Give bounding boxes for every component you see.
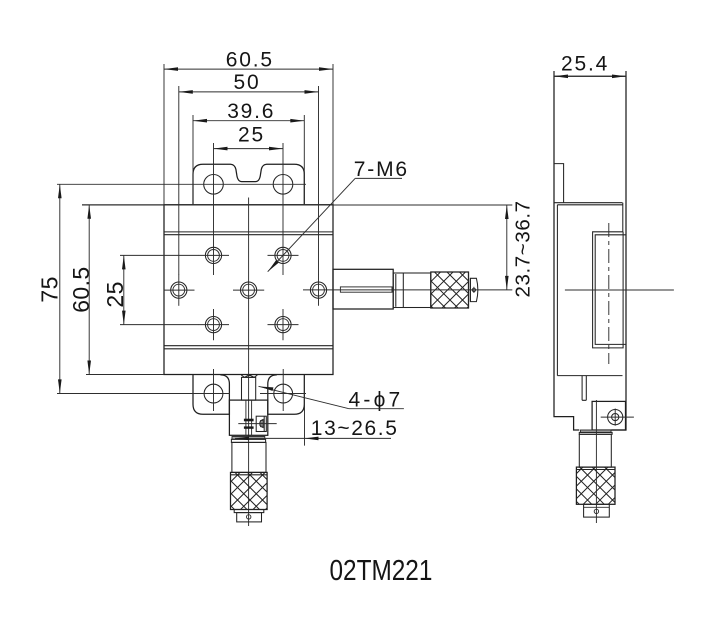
screw shaft bbox=[245, 400, 247, 435]
dim 25.4 side view bbox=[554, 53, 626, 78]
dim 39.6 top bbox=[193, 100, 304, 205]
X micrometer spindle slot bbox=[340, 287, 392, 292]
M6 hole top-right bbox=[268, 247, 299, 263]
bottom tab hole right bbox=[274, 369, 293, 411]
side view body left edge bbox=[556, 205, 558, 376]
dim 25 top bbox=[214, 124, 284, 276]
svg-text:13~26.5: 13~26.5 bbox=[311, 417, 399, 440]
shaft band lower bbox=[244, 426, 254, 428]
shaft band upper bbox=[244, 419, 254, 422]
M6 hole mid-left bbox=[164, 275, 195, 306]
clamp screw centerline bbox=[238, 423, 276, 425]
Y micrometer knurled thimble bbox=[231, 472, 268, 509]
side micrometer knurled thimble bbox=[576, 467, 615, 504]
dim 50 top bbox=[179, 71, 319, 275]
dim 60.5 left bbox=[68, 205, 164, 375]
screw tip bbox=[241, 375, 257, 378]
Y micrometer end cap bbox=[237, 513, 262, 522]
M6 hole top-left bbox=[198, 247, 229, 263]
bottom tab right ear bbox=[268, 375, 305, 415]
X micrometer end cap bbox=[470, 278, 477, 301]
side view clamp bracket bbox=[592, 401, 625, 430]
body upper seam lines bbox=[164, 231, 333, 233]
svg-text:25: 25 bbox=[102, 281, 128, 307]
svg-text:23.7~36.7: 23.7~36.7 bbox=[512, 200, 535, 297]
dim 75 left bbox=[37, 184, 63, 393]
X micrometer knurled thimble bbox=[431, 272, 469, 308]
svg-text:75: 75 bbox=[37, 276, 63, 302]
X micrometer ratchet band bbox=[468, 272, 470, 308]
svg-text:39.6: 39.6 bbox=[227, 100, 275, 123]
top mounting tab outline bbox=[193, 164, 304, 205]
body lower seam lines bbox=[164, 345, 333, 347]
side view clamp screw bbox=[601, 409, 634, 426]
side view outer profile bbox=[554, 71, 626, 430]
side view bottom tab edge-on bbox=[582, 376, 586, 401]
Y micrometer sleeve bbox=[232, 442, 266, 472]
side view dashed centerline bbox=[608, 223, 610, 364]
side micrometer sleeve bbox=[579, 434, 611, 467]
top tab hole left bbox=[204, 175, 224, 195]
X micrometer axis centerline bbox=[303, 289, 512, 291]
dim 60.5 top bbox=[164, 48, 333, 204]
side view platform seam bbox=[554, 202, 623, 204]
svg-text:02TM221: 02TM221 bbox=[330, 554, 433, 586]
side view horizontal centerline bbox=[565, 289, 674, 291]
svg-text:60.5: 60.5 bbox=[226, 48, 274, 71]
side view body bottom bbox=[557, 375, 622, 377]
clamp screw knurled head bbox=[259, 419, 263, 427]
Y micrometer collar bbox=[232, 437, 265, 440]
side view body top bbox=[557, 204, 622, 206]
X micrometer mount block bbox=[333, 269, 393, 309]
svg-text:4-ϕ7: 4-ϕ7 bbox=[349, 388, 404, 411]
side micrometer end cap bbox=[584, 504, 610, 517]
side micrometer centerline bbox=[595, 400, 597, 523]
clamp screw housing bbox=[256, 416, 266, 431]
X micrometer barrel bbox=[393, 273, 431, 308]
Y-axis micrometer mount block bbox=[229, 400, 267, 435]
bottom tab centerline bbox=[57, 393, 230, 395]
Y-axis screw column bbox=[242, 377, 256, 400]
top tab hole right bbox=[273, 175, 293, 195]
svg-text:7-M6: 7-M6 bbox=[354, 158, 409, 181]
M6 hole bottom-right bbox=[268, 309, 299, 340]
M6 hole center bbox=[233, 282, 264, 298]
bottom tab left ear bbox=[193, 375, 229, 415]
svg-text:50: 50 bbox=[234, 71, 261, 94]
bottom tab hole left bbox=[204, 369, 223, 411]
side view left step notch bbox=[554, 164, 564, 203]
svg-text:60.5: 60.5 bbox=[68, 266, 94, 312]
dim 25 left bbox=[102, 255, 198, 324]
side micrometer collar bbox=[581, 430, 612, 432]
vertical centerline of front view bbox=[248, 198, 250, 527]
side view slide seam inner bbox=[595, 235, 626, 345]
main body outline bbox=[164, 205, 333, 375]
side view slide seam outer bbox=[593, 203, 624, 348]
svg-text:25.4: 25.4 bbox=[561, 53, 609, 76]
Y micrometer spanner band bbox=[234, 510, 264, 513]
M6 hole bottom-left bbox=[198, 309, 229, 340]
top tab centerline bbox=[57, 183, 306, 185]
M6 hole mid-right bbox=[310, 275, 326, 306]
svg-text:25: 25 bbox=[238, 124, 265, 147]
